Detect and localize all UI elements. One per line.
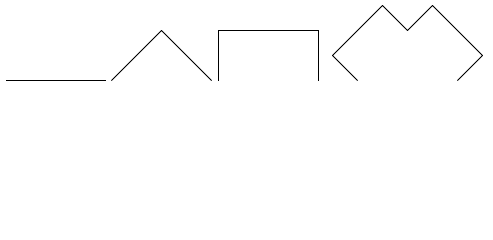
- wire: horizontal baseline segment: [6, 80, 106, 82]
- wire: rectangle top edge: [218, 30, 319, 32]
- wire: rectangle left vertical: [218, 30, 220, 81]
- wire: rectangle right vertical: [318, 30, 320, 81]
- wire: triangle rising slope: [111, 31, 161, 81]
- wire: crown zigzag polyline: [333, 6, 483, 81]
- wire: triangle falling slope: [162, 31, 212, 81]
